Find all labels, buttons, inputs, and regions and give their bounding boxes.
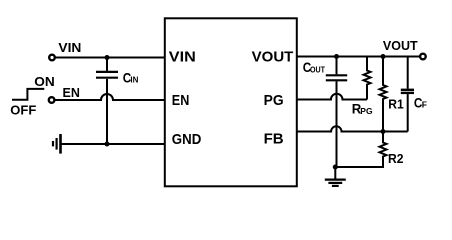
svg-text:OUT: OUT: [310, 65, 325, 74]
node ground right junction: [333, 165, 338, 170]
svg-text:FB: FB: [264, 131, 284, 148]
svg-text:VOUT: VOUT: [252, 48, 294, 65]
resistor R2: [335, 132, 386, 168]
svg-text:F: F: [422, 100, 427, 110]
node R1 top junction: [381, 54, 386, 59]
node GND junction: [105, 142, 110, 147]
ground right: [334, 167, 336, 179]
wire VOUT row: [297, 56, 420, 58]
svg-text:R1: R1: [388, 97, 404, 112]
ground left: [59, 134, 62, 154]
VIN terminal circle: [49, 55, 55, 61]
EN terminal circle: [49, 97, 55, 103]
capacitor CF: [407, 57, 409, 89]
svg-text:EN: EN: [172, 92, 190, 109]
svg-text:VOUT: VOUT: [383, 39, 418, 53]
svg-text:GND: GND: [172, 131, 202, 148]
node COUT junction: [334, 54, 339, 59]
svg-text:OFF: OFF: [10, 104, 36, 118]
capacitor CIN: [106, 58, 108, 72]
wire EN terminal to IC with hop over CIN net: [55, 94, 164, 100]
svg-text:R2: R2: [388, 151, 404, 166]
svg-text:PG: PG: [264, 92, 284, 109]
resistor R1: [380, 57, 387, 132]
svg-text:IN: IN: [130, 75, 138, 84]
svg-text:ON: ON: [34, 75, 55, 89]
wire GND to IC: [60, 143, 164, 145]
svg-text:PG: PG: [360, 106, 373, 116]
svg-text:EN: EN: [63, 86, 80, 100]
VOUT terminal circle: [420, 54, 426, 60]
resistor RPG: [364, 57, 371, 100]
svg-text:VIN: VIN: [169, 48, 196, 65]
node VIN junction: [105, 55, 110, 60]
switch ON/OFF waveform: [12, 89, 44, 100]
capacitor COUT: [336, 57, 338, 75]
wire VIN terminal to IC: [55, 57, 164, 59]
svg-text:VIN: VIN: [58, 41, 81, 55]
wire PG with hop over COUT net: [297, 94, 368, 100]
node FB junction: [381, 129, 386, 134]
wire FB with hop over COUT net: [297, 126, 408, 131]
op-amp U1 regulator body: [165, 18, 297, 186]
